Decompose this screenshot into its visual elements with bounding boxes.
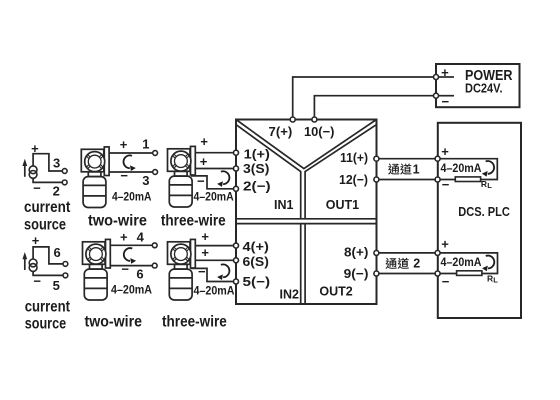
svg-text:+: + — [120, 137, 128, 152]
svg-text:current: current — [25, 299, 70, 316]
channel1 - terminal — [435, 177, 440, 182]
svg-text:4–20mA: 4–20mA — [441, 163, 482, 175]
svg-text:3(S): 3(S) — [243, 161, 269, 176]
svg-text:4–20mA: 4–20mA — [194, 285, 235, 297]
power - stub — [438, 95, 454, 97]
channel2 receiver loop — [438, 253, 498, 274]
channel2 - terminal — [435, 271, 440, 276]
wire terminal 8 to channel2 + — [379, 252, 435, 254]
svg-text:−: − — [33, 273, 41, 288]
svg-text:−: − — [121, 261, 129, 276]
power + stub — [438, 76, 454, 78]
current source CS1 symbol — [29, 166, 37, 178]
current source CS2 wires — [33, 247, 63, 264]
svg-text:current: current — [24, 199, 70, 216]
terminal 3 — [234, 166, 239, 171]
channel2 loop arrow — [482, 256, 494, 272]
terminal 1 — [234, 150, 239, 155]
isolator U1 outer box — [236, 120, 377, 305]
svg-text:−: − — [442, 94, 450, 109]
channel1 + terminal — [435, 156, 440, 161]
svg-text:8(+): 8(+) — [344, 244, 368, 259]
DCS PLC box — [438, 123, 521, 318]
svg-text:1: 1 — [413, 162, 420, 176]
svg-text:5(−): 5(−) — [243, 274, 271, 289]
power - terminal — [434, 93, 439, 98]
wire power - to terminal 10 — [314, 96, 433, 117]
svg-text:+: + — [201, 245, 209, 260]
svg-text:DC24V.: DC24V. — [465, 82, 503, 96]
three-wire transmitter T2 — [168, 146, 196, 207]
svg-text:12(−): 12(−) — [339, 172, 368, 187]
T2 loop arrow — [217, 171, 229, 187]
T2 wire - to terminal 2 — [191, 176, 234, 189]
channel2 + terminal — [435, 250, 440, 255]
U1 IN1 region divider — [236, 125, 301, 219]
svg-text:OUT1: OUT1 — [326, 198, 359, 212]
T3 wire - to node 6 — [110, 265, 152, 267]
terminal 10 — [312, 117, 317, 122]
T4 loop arrow — [217, 264, 229, 280]
U1 power triangle divider — [236, 120, 377, 169]
channel1 label 通道1 — [388, 163, 412, 174]
svg-text:5: 5 — [53, 278, 60, 293]
node 2 terminal — [62, 180, 67, 185]
T3 loop arrow — [124, 248, 136, 264]
T4 wire + to terminal 4 — [195, 245, 233, 247]
channel1 receiver loop — [438, 159, 498, 180]
terminal 6 — [234, 258, 239, 263]
svg-text:R: R — [481, 179, 487, 189]
terminal 2 — [234, 186, 239, 191]
svg-text:2(−): 2(−) — [243, 179, 271, 194]
T1 wire - to node 3 — [109, 171, 153, 173]
two-wire transmitter T1 — [81, 147, 109, 208]
svg-text:−: − — [198, 264, 206, 279]
wire power + to terminal 7 — [293, 77, 434, 117]
svg-text:4–20mA: 4–20mA — [441, 257, 482, 269]
current source CS2 arrow — [22, 252, 27, 270]
power supply box — [436, 64, 520, 107]
T2 wire S to terminal 3 — [195, 168, 233, 170]
U1 horizontal divider lower line — [236, 223, 377, 225]
svg-text:4(+): 4(+) — [243, 239, 269, 254]
svg-text:+: + — [31, 141, 39, 156]
wire terminal 9 to channel2 - — [379, 273, 435, 275]
svg-text:9(−): 9(−) — [344, 266, 369, 281]
node 6 terminal — [152, 263, 157, 268]
svg-text:DCS. PLC: DCS. PLC — [458, 205, 510, 219]
svg-text:6(S): 6(S) — [243, 254, 269, 269]
wire terminal 11 to channel1 + — [379, 158, 435, 160]
terminal 5 — [234, 279, 239, 284]
U1 OUT1 region divider — [305, 125, 376, 219]
T1 loop arrow — [124, 155, 136, 171]
node 3 terminal — [153, 170, 158, 175]
channel1 resistor RL — [455, 177, 480, 182]
node 1 terminal — [153, 151, 158, 156]
svg-text:11(+): 11(+) — [340, 150, 368, 165]
T4 wire - to terminal 5 — [191, 268, 234, 281]
terminal 11 — [374, 156, 379, 161]
svg-text:L: L — [493, 276, 498, 285]
terminal 7 — [290, 117, 295, 122]
current source CS1 wires — [33, 154, 62, 171]
svg-text:−: − — [120, 168, 128, 183]
svg-text:1: 1 — [142, 136, 149, 151]
two-wire transmitter T3 — [83, 239, 111, 300]
U1 horizontal divider upper line — [236, 218, 377, 220]
terminal 12 — [374, 177, 379, 182]
terminal 4 — [234, 243, 239, 248]
svg-text:1(+): 1(+) — [244, 146, 270, 161]
svg-text:3: 3 — [53, 155, 60, 170]
svg-text:OUT2: OUT2 — [319, 285, 352, 299]
channel2 resistor RL — [457, 271, 482, 276]
svg-text:three-wire: three-wire — [162, 313, 227, 330]
svg-text:IN1: IN1 — [274, 198, 294, 212]
terminal 8 — [374, 250, 379, 255]
svg-text:6: 6 — [53, 245, 60, 260]
svg-text:2: 2 — [53, 184, 60, 199]
channel1 loop arrow — [482, 161, 494, 177]
svg-text:source: source — [25, 315, 67, 332]
three-wire transmitter T4 — [168, 239, 196, 300]
svg-text:+: + — [441, 65, 449, 80]
current source CS1 arrow — [22, 159, 27, 177]
svg-text:three-wire: three-wire — [161, 213, 226, 230]
T3 wire + to node 4 — [110, 244, 152, 246]
svg-text:+: + — [200, 154, 208, 169]
svg-text:3: 3 — [142, 173, 149, 188]
power + terminal — [434, 75, 439, 80]
svg-text:6: 6 — [136, 267, 143, 282]
current source CS2 symbol — [29, 259, 37, 271]
svg-text:+: + — [32, 233, 40, 248]
svg-text:R: R — [487, 274, 493, 284]
U1 IN2/OUT2 divider left line — [300, 224, 302, 304]
svg-text:−: − — [197, 174, 205, 189]
svg-text:−: − — [442, 177, 450, 192]
svg-text:+: + — [201, 229, 209, 244]
node 6 terminal — [63, 262, 68, 267]
svg-text:−: − — [33, 181, 41, 196]
svg-text:+: + — [200, 134, 208, 149]
svg-text:−: − — [442, 274, 450, 289]
node 4 terminal — [152, 243, 157, 248]
svg-text:4–20mA: 4–20mA — [194, 191, 234, 203]
svg-text:10(−): 10(−) — [304, 124, 335, 139]
T2 wire + to terminal 1 — [195, 152, 233, 154]
svg-text:4–20mA: 4–20mA — [112, 191, 151, 203]
svg-text:source: source — [24, 216, 66, 233]
svg-text:2: 2 — [413, 257, 420, 271]
wire terminal 12 to channel1 - — [379, 179, 435, 181]
svg-text:4: 4 — [137, 230, 145, 245]
node 5 terminal — [63, 273, 68, 278]
channel2 label 通道 2 — [385, 258, 409, 269]
svg-text:+: + — [441, 144, 449, 159]
node 3 terminal — [62, 169, 67, 174]
svg-text:4–20mA: 4–20mA — [111, 285, 152, 297]
svg-text:+: + — [441, 237, 449, 252]
T4 wire S to terminal 6 — [195, 259, 233, 261]
T1 wire + to node 1 — [109, 152, 153, 154]
svg-text:L: L — [487, 181, 492, 190]
svg-text:7(+): 7(+) — [269, 124, 293, 139]
svg-text:+: + — [120, 230, 128, 245]
svg-text:two-wire: two-wire — [85, 313, 143, 330]
U1 IN2/OUT2 divider right line — [304, 224, 306, 304]
svg-text:IN2: IN2 — [280, 287, 300, 301]
svg-text:two-wire: two-wire — [88, 213, 147, 230]
terminal 9 — [374, 271, 379, 276]
